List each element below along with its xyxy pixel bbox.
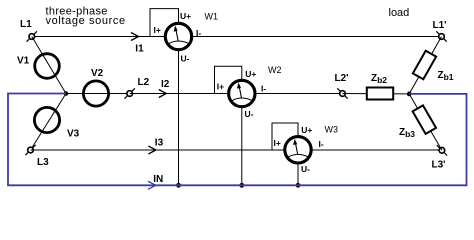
- impedance Zb2: [367, 88, 393, 100]
- svg-text:L1': L1': [433, 20, 447, 31]
- terminal L1: [27, 31, 37, 41]
- wire L2 line from terminal L2 to wattmeter W2 I+: [130, 93, 229, 95]
- svg-text:L1: L1: [20, 19, 32, 30]
- svg-text:Zb3: Zb3: [399, 127, 415, 139]
- neutral junction node of source: [64, 91, 69, 96]
- terminal L1': [436, 31, 446, 41]
- svg-text:L2: L2: [138, 77, 150, 88]
- wire W3 I- to terminal L3': [311, 149, 442, 151]
- svg-text:I+: I+: [217, 81, 224, 91]
- svg-text:W2: W2: [268, 65, 282, 75]
- svg-text:V2: V2: [91, 68, 104, 79]
- svg-text:voltage source: voltage source: [46, 15, 126, 27]
- current arrow I1: [131, 33, 139, 41]
- svg-text:U-: U-: [301, 164, 310, 174]
- terminal L2': [337, 88, 347, 98]
- svg-text:Zb2: Zb2: [371, 73, 387, 85]
- svg-text:I-: I-: [319, 139, 324, 149]
- svg-text:U+: U+: [301, 125, 312, 135]
- wire from junction through V2 to terminal L2: [66, 93, 130, 95]
- voltage source V3: [34, 107, 59, 132]
- wattmeter W3: [285, 137, 311, 163]
- svg-text:U-: U-: [181, 53, 190, 63]
- svg-text:I2: I2: [161, 79, 170, 90]
- svg-text:V3: V3: [67, 129, 80, 140]
- wire from terminal L1' through Zb1 to star point: [409, 37, 441, 94]
- svg-text:L3': L3': [432, 159, 446, 170]
- wattmeter W3 voltage-coil loop wire: [272, 123, 298, 150]
- svg-text:L2': L2': [335, 73, 349, 84]
- current arrow I3: [148, 146, 156, 154]
- impedance Zb3: [413, 105, 436, 134]
- wattmeter W1 voltage-coil loop wire: [150, 9, 179, 37]
- svg-text:I-: I-: [261, 83, 266, 93]
- wire W1 I- to terminal L1': [191, 36, 442, 38]
- svg-text:U-: U-: [245, 109, 254, 119]
- svg-text:U+: U+: [245, 69, 256, 79]
- svg-text:W1: W1: [205, 12, 219, 22]
- svg-text:I3: I3: [155, 137, 164, 148]
- star point junction of load: [407, 92, 412, 97]
- wattmeter W2 voltage-coil loop wire: [215, 66, 242, 93]
- voltage source V2: [83, 81, 108, 106]
- terminal L3': [437, 145, 447, 155]
- terminal L3: [25, 145, 35, 155]
- wire L1 line from terminal L1 to wattmeter W1 I+: [33, 36, 165, 38]
- svg-text:Zb1: Zb1: [438, 70, 454, 82]
- wattmeter W2 U- wire down to neutral: [241, 107, 243, 185]
- wire from star point through Zb3 to terminal L3': [409, 94, 442, 150]
- svg-text:I+: I+: [154, 25, 161, 35]
- wattmeter W1: [165, 23, 191, 49]
- wire from terminal L2' to star point: [343, 93, 410, 95]
- svg-text:V1: V1: [17, 56, 30, 67]
- svg-text:L3: L3: [37, 157, 49, 168]
- svg-text:W3: W3: [325, 124, 339, 134]
- wire L3 line from terminal L3 to wattmeter W3 I+: [31, 149, 286, 151]
- wire from terminal L1 through V1 to neutral junction: [32, 37, 66, 94]
- wire from junction through V3 to terminal L3: [31, 94, 67, 151]
- wire W2 I- to terminal L2': [254, 93, 342, 95]
- junction dot W1 U- on neutral: [176, 183, 181, 188]
- svg-text:I+: I+: [274, 138, 281, 148]
- wattmeter W3 U- wire down to neutral: [297, 163, 299, 185]
- voltage source V1: [35, 54, 60, 79]
- terminal L2: [125, 88, 135, 98]
- svg-text:load: load: [389, 7, 410, 19]
- neutral wire IN (blue loop): [8, 94, 467, 186]
- current arrow I2: [159, 90, 167, 98]
- svg-text:IN: IN: [153, 174, 163, 185]
- junction dot W3 U- on neutral: [296, 183, 301, 188]
- wattmeter W1 U- wire down to neutral: [178, 50, 180, 185]
- impedance Zb1: [413, 51, 436, 80]
- svg-text:U+: U+: [180, 11, 191, 21]
- svg-text:I1: I1: [135, 43, 144, 54]
- wattmeter W2: [229, 80, 255, 106]
- current arrow IN (blue): [148, 181, 156, 189]
- junction dot W2 U- on neutral: [239, 183, 244, 188]
